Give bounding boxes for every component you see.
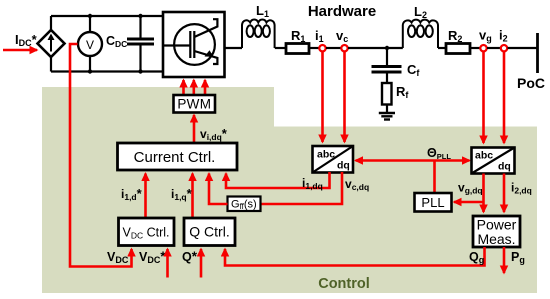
svg-text:IDC*: IDC* (15, 32, 38, 48)
wire DC-link bottom rail (51, 70, 163, 72)
node i1 (319, 45, 325, 51)
wire red VDC measurement (70, 44, 132, 267)
wire red IDC* input arrow (3, 49, 37, 52)
wire R1 to i1 (309, 47, 319, 49)
svg-text:abc: abc (475, 150, 493, 162)
Current Ctrl box (118, 143, 238, 170)
wire i2 to PoC (508, 47, 538, 49)
resistor Rf (382, 83, 392, 105)
svg-text:L1: L1 (256, 3, 269, 19)
wire red i1,d* VDC Ctrl to Current Ctrl (144, 174, 147, 218)
VDC Ctrl box (119, 218, 175, 246)
wire vc to L2 (348, 47, 403, 49)
wire DC-link top rail (51, 15, 163, 17)
svg-text:Meas.: Meas. (477, 231, 515, 247)
svg-text:V: V (86, 38, 94, 52)
ground (379, 105, 395, 120)
svg-text:Current Ctrl.: Current Ctrl. (134, 149, 216, 166)
junction Cf branch (385, 46, 389, 50)
inductor L2 (403, 20, 438, 48)
svg-text:Hardware: Hardware (308, 3, 376, 20)
wire L1 to R1 (275, 47, 286, 49)
svg-text:i1: i1 (315, 28, 324, 44)
wire red vg,dq branch to PLL (454, 201, 484, 204)
svg-text:Q Ctrl.: Q Ctrl. (189, 224, 229, 240)
wire red i2,dq to Power Meas (503, 174, 506, 213)
PoC bus bar (536, 33, 539, 73)
svg-text:PLL: PLL (421, 195, 444, 210)
capacitor Cf (372, 48, 402, 83)
wire L2 to R2 (438, 47, 446, 49)
wire red Pg output (503, 247, 506, 273)
svg-text:L2: L2 (414, 4, 427, 20)
Gff(s) box (228, 197, 261, 212)
Q Ctrl box (184, 218, 235, 246)
svg-text:R2: R2 (448, 28, 462, 44)
svg-text:Gff(s): Gff(s) (231, 199, 257, 212)
svg-text:i2: i2 (499, 28, 508, 44)
wire R2 to vg (470, 47, 480, 49)
wire red Qg feedback (225, 247, 485, 266)
IGBT symbol inside converter (163, 19, 217, 65)
svg-text:Control: Control (318, 276, 370, 292)
svg-text:dq: dq (337, 160, 350, 172)
wire red Gff output to Current Ctrl (209, 174, 228, 205)
wire red PLL output (433, 161, 436, 194)
current source IDC (diamond) (38, 16, 65, 72)
svg-text:Q*: Q* (182, 249, 198, 264)
wire red i2 measurement (503, 52, 506, 144)
wire red theta PLL (356, 159, 435, 162)
node vg (480, 45, 486, 51)
wire red vc measurement (343, 52, 346, 143)
svg-text:R1: R1 (291, 28, 305, 44)
resistor R1 (286, 44, 309, 54)
PLL box (415, 193, 452, 212)
node i2 (501, 45, 507, 51)
wire red vi,dq* Current Ctrl to PWM (193, 115, 196, 143)
wire red i1 measurement (321, 52, 324, 143)
svg-text:dq: dq (498, 161, 511, 173)
svg-text:Cf: Cf (407, 62, 420, 78)
converter box (163, 12, 225, 77)
wire converter output (225, 47, 243, 49)
svg-text:abc: abc (317, 149, 335, 161)
capacitor CDC (127, 14, 154, 74)
control region green background (42, 87, 537, 293)
wire i1 to vc (326, 47, 341, 49)
svg-text:CDC: CDC (106, 34, 127, 49)
inductor L1 (242, 20, 275, 48)
voltmeter V (78, 14, 102, 74)
wire red vc,dq to Gff (261, 172, 342, 204)
wire red PWM gate arrows (184, 80, 206, 94)
wire red i1,q* Q Ctrl to Current Ctrl (191, 174, 194, 218)
wire red vg,dq to Power Meas (482, 174, 485, 213)
svg-text:vc: vc (336, 28, 348, 44)
abc/dq transform U2 (472, 148, 515, 174)
svg-text:PWM: PWM (177, 97, 211, 112)
wire red Q* setpoint (200, 249, 203, 278)
resistor R2 (446, 44, 470, 54)
wire red i1,dq feedback (226, 172, 330, 188)
svg-text:vg: vg (479, 28, 492, 44)
node vc (341, 45, 347, 51)
wire vg to i2 (487, 47, 501, 49)
PWM box (174, 95, 216, 113)
svg-text:PoC: PoC (517, 75, 545, 91)
wire red vg measurement (482, 52, 485, 144)
Power Meas box (473, 216, 520, 247)
svg-text:VDC Ctrl.: VDC Ctrl. (122, 226, 169, 241)
wire red VDC* setpoint (166, 249, 169, 278)
abc/dq transform U1 (313, 146, 354, 173)
svg-text:Rf: Rf (396, 84, 409, 100)
